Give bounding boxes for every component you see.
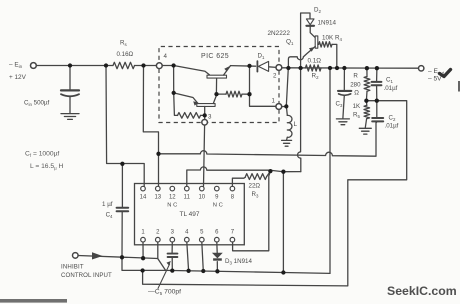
svg-text:1N914: 1N914 — [318, 20, 337, 27]
svg-text:N C: N C — [167, 203, 177, 209]
svg-text:1 µf: 1 µf — [102, 201, 113, 208]
svg-text:2N2222: 2N2222 — [268, 30, 291, 37]
svg-text:Cf = 1000µf: Cf = 1000µf — [25, 150, 59, 158]
svg-text:12: 12 — [169, 194, 176, 200]
svg-text:14: 14 — [140, 194, 147, 200]
svg-text:22Ω: 22Ω — [249, 182, 261, 189]
svg-text:CONTROL INPUT: CONTROL INPUT — [61, 272, 112, 279]
svg-text:—C5 700pf: —C5 700pf — [148, 289, 181, 297]
svg-text:D3 1N914: D3 1N914 — [225, 258, 252, 266]
svg-text:.01µf: .01µf — [385, 123, 399, 130]
svg-text:0.1Ω: 0.1Ω — [308, 58, 322, 65]
svg-text:Ω: Ω — [354, 90, 359, 97]
svg-text:10K R4: 10K R4 — [322, 35, 343, 43]
svg-text:2: 2 — [273, 73, 277, 80]
svg-text:PIC 625: PIC 625 — [201, 53, 229, 60]
svg-text:0.16Ω: 0.16Ω — [117, 51, 134, 58]
svg-text:10: 10 — [198, 194, 205, 200]
svg-text:1: 1 — [272, 98, 276, 105]
svg-text:L: L — [294, 121, 298, 128]
svg-text:SeekIC.com: SeekIC.com — [387, 284, 457, 298]
svg-text:11: 11 — [184, 194, 191, 200]
svg-text:+ 12V: + 12V — [9, 74, 27, 81]
svg-text:280: 280 — [350, 82, 361, 89]
svg-text:N C: N C — [213, 203, 223, 209]
svg-text:4: 4 — [164, 53, 168, 60]
svg-text:Cin 500µf: Cin 500µf — [24, 100, 50, 108]
svg-text:– 5V: – 5V — [428, 76, 442, 83]
svg-text:1K: 1K — [353, 103, 361, 110]
svg-text:INHIBIT: INHIBIT — [61, 264, 84, 271]
svg-text:R: R — [353, 73, 358, 80]
svg-text:TL 497: TL 497 — [180, 211, 200, 218]
svg-text:3: 3 — [208, 114, 212, 121]
svg-text:.01µf: .01µf — [384, 85, 398, 92]
svg-text:L = 16.5µ H: L = 16.5µ H — [30, 163, 64, 171]
svg-text:13: 13 — [154, 194, 161, 200]
